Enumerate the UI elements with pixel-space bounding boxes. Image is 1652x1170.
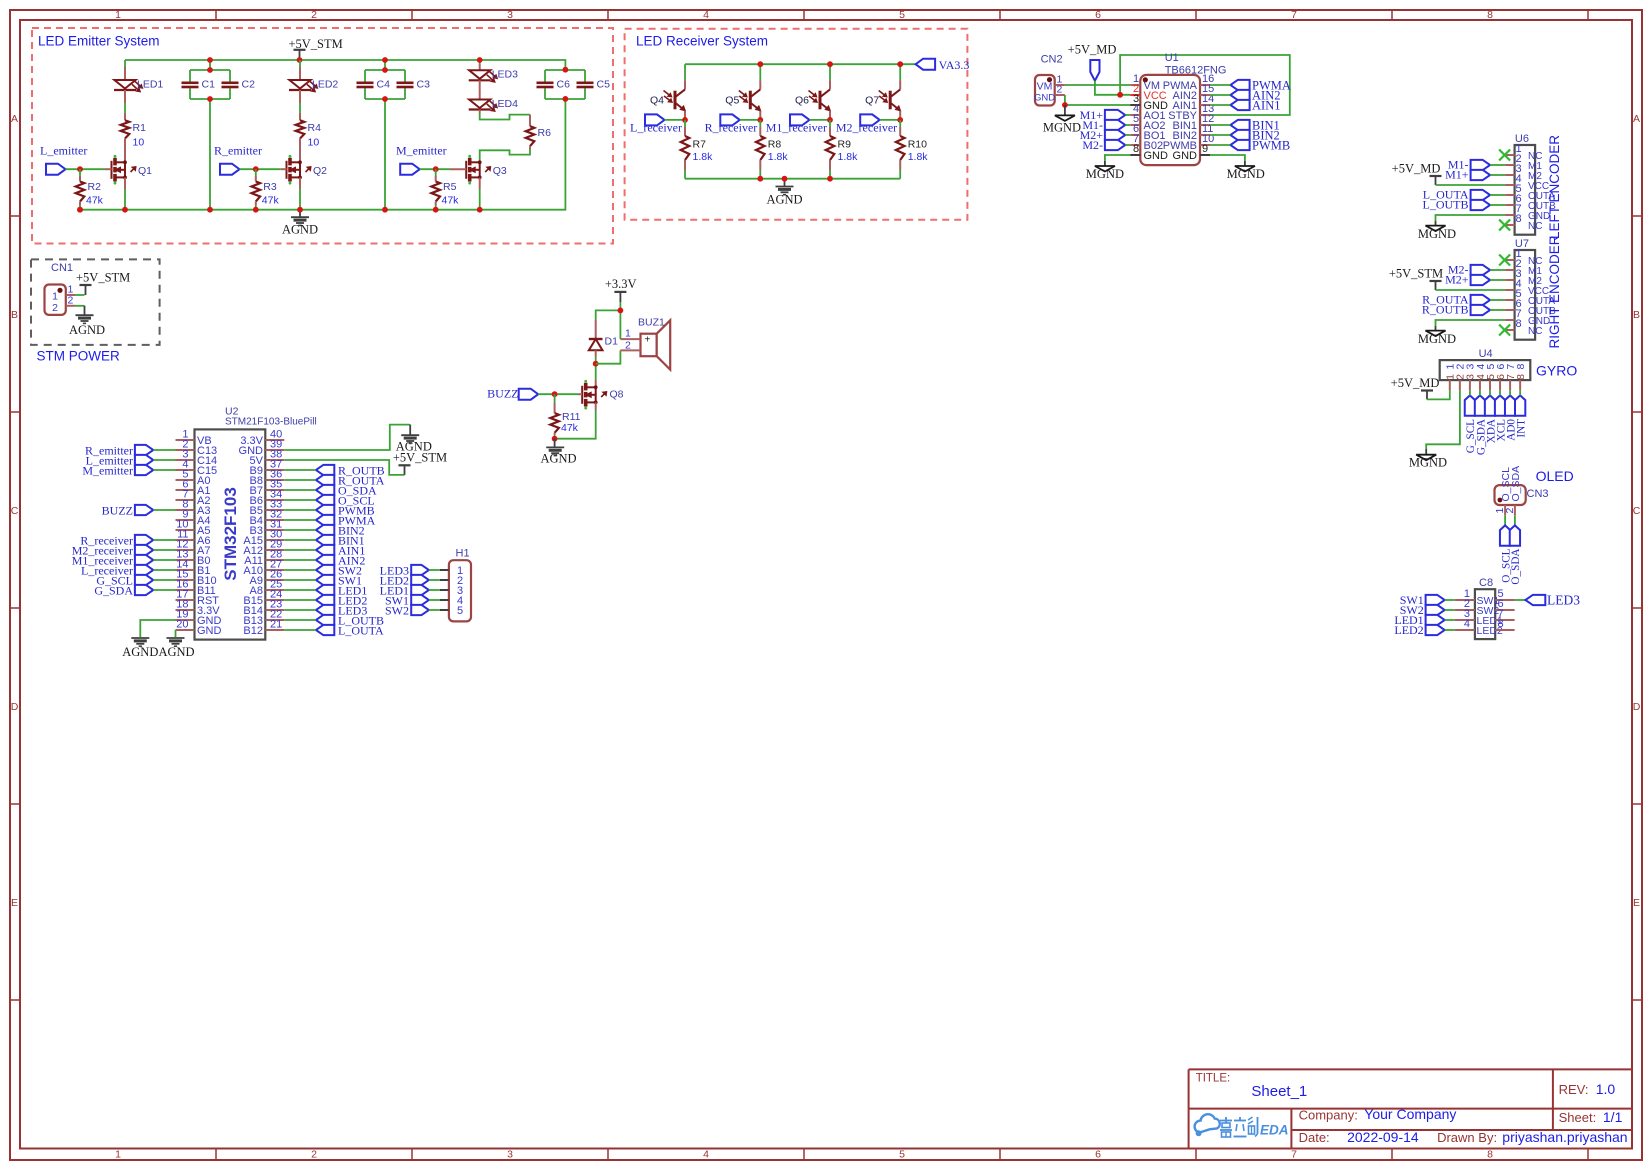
svg-text:47k: 47k <box>262 195 280 207</box>
junction dot Q1 source <box>122 207 128 213</box>
LED LED4 <box>469 98 518 112</box>
pin 8 U4 <box>1515 364 1527 391</box>
wire Q1 gate net <box>66 168 112 170</box>
port flag LED1 (U2 right) <box>316 584 367 598</box>
port flag R_receiver (U2) <box>80 533 153 547</box>
pin 30 U2 A15 <box>243 528 284 547</box>
svg-text:A: A <box>1633 113 1640 125</box>
svg-text:C1: C1 <box>202 78 216 90</box>
pin 8 U2 A3 <box>176 498 211 517</box>
wire LED anode lead LED1 <box>124 60 126 67</box>
svg-text:B: B <box>11 309 18 321</box>
svg-text:L_OUTA: L_OUTA <box>338 624 384 638</box>
wire AD0 (U4) <box>1509 390 1511 395</box>
port flag R_OUTB (U7) <box>1422 303 1490 317</box>
wire BUZZ gate net <box>538 393 582 395</box>
wire XCL (U4) <box>1499 390 1501 395</box>
transistor Q3 (N-MOSFET) <box>466 155 507 185</box>
wire BIN1 from U2 <box>284 539 316 541</box>
svg-text:CN3: CN3 <box>1527 488 1549 500</box>
svg-text:MGND: MGND <box>1086 167 1124 181</box>
svg-text:9: 9 <box>1202 143 1208 155</box>
svg-text:AGND: AGND <box>158 645 194 659</box>
svg-text:D1: D1 <box>605 335 619 347</box>
svg-text:M_emitter: M_emitter <box>82 463 133 477</box>
port flag BIN2 <box>1230 129 1279 143</box>
svg-text:8: 8 <box>1133 143 1139 155</box>
wire CN2-1 to U1 VM <box>1065 84 1130 86</box>
svg-text:20: 20 <box>176 618 188 630</box>
svg-text:B12: B12 <box>243 625 263 637</box>
title block Date <box>1299 1129 1419 1145</box>
capacitor C6 <box>537 78 571 90</box>
svg-text:8: 8 <box>1516 318 1522 330</box>
junction dot gate/R2 <box>77 166 83 172</box>
svg-text:NC: NC <box>1528 326 1542 337</box>
wire LED4 to R6 <box>480 110 530 127</box>
svg-text:Sheet:: Sheet: <box>1559 1110 1597 1125</box>
svg-text:GND: GND <box>197 625 222 637</box>
IC U1 TB6612FNG body <box>1140 52 1226 165</box>
svg-text:GND: GND <box>1034 93 1055 104</box>
pin 10 U1 PWMB <box>1163 133 1214 152</box>
svg-text:E: E <box>1633 897 1640 909</box>
wire G_SDA (U4) <box>1479 390 1481 395</box>
pin 1 CN1 <box>66 284 75 296</box>
pin 7 U6 GND <box>1505 203 1550 222</box>
wire PWMB <box>1210 144 1230 146</box>
port flag O_SDA (CN3) <box>1510 525 1522 584</box>
title block REV <box>1559 1081 1616 1097</box>
port flag XCL (U4) <box>1495 395 1507 441</box>
svg-text:NC: NC <box>1528 221 1542 232</box>
pin 2 U6 M1 <box>1505 153 1542 172</box>
svg-text:3: 3 <box>507 9 513 21</box>
wire G_SCL (U4) <box>1469 390 1471 395</box>
pin 6 U4 <box>1495 364 1507 391</box>
wire LED1 from U2 <box>284 589 316 591</box>
port flag BIN1 (U2 right) <box>316 534 365 548</box>
svg-text:21: 21 <box>270 618 282 630</box>
junction dot VCC/STBY <box>1117 92 1123 98</box>
ground AGND (CN1) <box>69 306 105 337</box>
svg-text:MGND: MGND <box>1418 332 1456 346</box>
junction dot gate/R3 <box>253 166 259 172</box>
svg-text:1: 1 <box>115 1149 121 1161</box>
resistor R10 <box>896 120 928 179</box>
port flag R_OUTA (U7) <box>1422 293 1490 307</box>
wire L_OUTB <box>1490 204 1505 206</box>
wire M2_receiver port <box>880 119 901 121</box>
wire U2 pin38 5V to +5V_STM <box>284 460 404 475</box>
svg-text:2: 2 <box>311 9 317 21</box>
pin 37 U2 B9 <box>250 458 285 477</box>
pin 2 CN2 <box>1055 84 1065 96</box>
wire M2+ <box>1490 279 1505 281</box>
wire LED3 to H1 <box>429 569 440 571</box>
svg-text:MGND: MGND <box>1409 456 1447 470</box>
port flag INT (U4) <box>1515 395 1527 437</box>
diode D1 <box>589 320 618 357</box>
junction dot Q6 collector <box>827 61 833 67</box>
pin 3 C8 LED1 <box>1455 608 1503 627</box>
svg-text:EDA: EDA <box>1260 1123 1289 1138</box>
svg-text:5: 5 <box>899 9 905 21</box>
port flag L_receiver (U2) <box>81 563 153 577</box>
pin 3 U2 C14 <box>176 448 218 467</box>
svg-text:2: 2 <box>1504 508 1516 514</box>
svg-text:VM: VM <box>1037 81 1053 93</box>
+5V_STM power flag (U2) <box>393 451 447 475</box>
svg-text:4: 4 <box>703 9 709 21</box>
wire BIN1 <box>1210 124 1230 126</box>
port flag M1+ (U6) <box>1445 168 1490 182</box>
port flag O_SCL (U2 right) <box>316 494 375 508</box>
pin 16 U2 B11 <box>176 578 216 597</box>
wire U1 pin9 GND <box>1210 155 1245 161</box>
port flag SW2 (U2 right) <box>316 564 362 578</box>
logo JLC EDA <box>1195 1114 1289 1137</box>
wire LED LED1 cathode to R1 <box>124 90 126 120</box>
pin 2 H1 <box>440 575 463 587</box>
wire Q2 gate net <box>240 168 287 170</box>
port flag LED3 (U2 right) <box>316 604 367 618</box>
wire R_emitter to U2 <box>153 449 175 451</box>
junction dot R9 bottom <box>827 176 833 182</box>
svg-text:R9: R9 <box>838 139 852 151</box>
svg-text:+5V_STM: +5V_STM <box>1389 267 1443 281</box>
resistor R5 <box>431 169 459 210</box>
wire VCC U6 <box>1436 184 1506 186</box>
pin 12 U2 A7 <box>176 538 211 557</box>
svg-text:R8: R8 <box>768 139 782 151</box>
pin 29 U2 A12 <box>243 538 284 557</box>
pin 2 U1 VCC <box>1130 83 1167 102</box>
IC U4 body (GYRO header) <box>1440 348 1531 380</box>
wire CN3 pin2 <box>1514 515 1516 525</box>
svg-text:1: 1 <box>52 291 58 303</box>
+5V_MD power flag (U4) <box>1391 376 1440 400</box>
junction dot Q7 emitter <box>897 117 903 123</box>
svg-text:1.8k: 1.8k <box>768 151 789 163</box>
title block Sheet <box>1559 1109 1623 1125</box>
junction dot Q3 source <box>477 207 483 213</box>
pin 1 H1 <box>440 565 463 577</box>
pin 1 BUZ1 <box>620 328 640 340</box>
svg-text:Q1: Q1 <box>138 165 152 177</box>
svg-text:CN1: CN1 <box>51 262 73 274</box>
svg-text:6: 6 <box>1095 9 1101 21</box>
svg-text:R4: R4 <box>308 122 322 134</box>
pin 6 U7 OUTB <box>1505 298 1556 317</box>
wire M1+ <box>1125 114 1130 116</box>
junction dot receiver AGND <box>782 176 788 182</box>
svg-text:+5V_STM: +5V_STM <box>393 451 447 465</box>
junction dot BUZZ/R11 <box>552 391 558 397</box>
no-connect X U6 pin1 <box>1499 150 1510 161</box>
wire D1 anode to Q8 drain <box>595 357 597 381</box>
pin 3 H1 <box>440 585 463 597</box>
svg-text:LED2: LED2 <box>1394 623 1423 637</box>
pin 1 U6 NC <box>1505 143 1542 162</box>
ground AGND (emitter) <box>282 210 318 237</box>
svg-text:47k: 47k <box>442 195 460 207</box>
pin 1 U4 <box>1445 364 1457 391</box>
ground MGND (U6) <box>1418 221 1456 241</box>
svg-text:LED3: LED3 <box>1547 593 1580 608</box>
ground AGND (U2 pin20) <box>158 638 194 659</box>
svg-text:R6: R6 <box>538 127 552 139</box>
svg-text:5: 5 <box>899 1149 905 1161</box>
port flag M2- (U7) <box>1448 263 1490 277</box>
port flag BUZZ (U2) <box>102 503 154 517</box>
capacitor C1 <box>182 78 216 90</box>
capacitor bracket C6/C5 wires <box>545 69 585 71</box>
wire M_emitter to U2 <box>153 469 175 471</box>
wire Q6 collector <box>829 64 831 89</box>
ground AGND (U2 pin19) <box>122 638 158 659</box>
wire M2+ <box>1125 134 1130 136</box>
junction dot +3.3V <box>618 308 624 314</box>
svg-text:5: 5 <box>457 605 463 617</box>
svg-text:47k: 47k <box>561 422 579 434</box>
svg-text:E: E <box>11 897 18 909</box>
+3.3V power flag <box>605 277 637 302</box>
port flag LED2 (C8) <box>1394 623 1444 637</box>
svg-text:8: 8 <box>1487 1149 1493 1161</box>
svg-text:R_emitter: R_emitter <box>214 144 262 158</box>
port flag L_OUTB (U2 right) <box>316 614 384 628</box>
svg-text:LEFT ENCODER: LEFT ENCODER <box>1547 135 1562 239</box>
port flag L_emitter <box>40 144 87 175</box>
wire M1- <box>1125 124 1130 126</box>
pin 8 C8 <box>1495 618 1514 630</box>
pin 15 U1 AIN2 <box>1173 83 1215 102</box>
junction dot CN2 GND <box>1062 102 1068 108</box>
pin 5 H1 <box>440 605 463 617</box>
capacitor bracket C4/C3 wires <box>365 69 405 71</box>
junction dot Q5 emitter <box>757 117 763 123</box>
transistor Q2 (N-MOSFET) <box>287 155 328 185</box>
svg-text:1.8k: 1.8k <box>908 151 929 163</box>
port flag M_emitter (U2) <box>82 463 153 477</box>
pin 5 U2 A0 <box>176 468 211 487</box>
pin 35 U2 B7 <box>250 478 285 497</box>
port flag M1+ <box>1080 108 1126 122</box>
wire U4 pin1 to +5V_MD <box>1427 390 1450 399</box>
pin 6 U2 A1 <box>176 478 211 497</box>
pin 2 C8 SW2 <box>1455 598 1500 617</box>
no-connect X U6 pin8 <box>1499 220 1510 231</box>
ground AGND (U2 pin39) <box>396 425 432 454</box>
pin 8 U1 GND <box>1130 143 1168 162</box>
svg-text:U1: U1 <box>1165 52 1179 64</box>
resistor R9 <box>826 120 858 179</box>
svg-text:B: B <box>1633 309 1640 321</box>
svg-text:10: 10 <box>133 137 145 149</box>
svg-text:1: 1 <box>115 9 121 21</box>
IC U6 body <box>1515 133 1536 235</box>
svg-text:1.8k: 1.8k <box>693 151 714 163</box>
wire O_SCL from U2 <box>284 499 316 501</box>
svg-text:TB6612FNG: TB6612FNG <box>1165 65 1227 77</box>
wire BIN2 <box>1210 134 1230 136</box>
wire LED1 to H1 <box>429 589 440 591</box>
ground MGND (U1 pin8) <box>1086 161 1124 181</box>
port flag M2_receiver <box>836 114 897 134</box>
pin 4 U7 VCC <box>1505 278 1549 297</box>
pin 14 U2 B1 <box>176 558 211 577</box>
svg-text:M2_receiver: M2_receiver <box>836 121 897 135</box>
svg-text:Date:: Date: <box>1299 1130 1330 1145</box>
wire AIN2 <box>1210 94 1230 96</box>
wire receiver VA3.3 rail <box>685 63 916 65</box>
svg-text:4: 4 <box>1464 618 1470 630</box>
capacitor C2 <box>222 78 256 90</box>
junction dot LED3 branch <box>477 57 483 63</box>
junction dot Q2 source <box>297 207 303 213</box>
LED LED3 (emitter) <box>469 69 518 83</box>
port flag R_OUTB (U2 right) <box>316 464 385 478</box>
pin 26 U2 A9 <box>250 568 285 587</box>
svg-text:R3: R3 <box>263 181 277 193</box>
svg-text:Q2: Q2 <box>313 165 327 177</box>
port flag LED2 (U2 right) <box>316 594 367 608</box>
pin 16 U1 PWMA <box>1163 73 1214 92</box>
port flag M1_receiver <box>766 114 827 134</box>
wire Q8 source to AGND <box>555 402 596 438</box>
+5V_MD net flag (U1) <box>1068 43 1117 81</box>
svg-text:2: 2 <box>68 294 74 306</box>
port flag AD0 (U4) <box>1505 395 1517 440</box>
port flag M1- (U6) <box>1448 158 1490 172</box>
wire M1_receiver port <box>810 119 831 121</box>
svg-text:Q5: Q5 <box>725 95 739 107</box>
pin 18 U2 3.3V <box>176 598 221 617</box>
port flag R_OUTA (U2 right) <box>316 474 385 488</box>
wire M1+ <box>1490 174 1505 176</box>
pin 3 U1 GND <box>1130 93 1168 112</box>
pin 1 C8 SW1 <box>1455 588 1500 607</box>
capacitor C4 <box>357 78 391 90</box>
svg-text:Q7: Q7 <box>865 95 879 107</box>
svg-text:TITLE:: TITLE: <box>1196 1072 1231 1084</box>
port flag LED2 (H1) <box>380 573 429 587</box>
ground MGND (U4) <box>1409 449 1447 470</box>
title block Company <box>1299 1106 1457 1123</box>
pin 9 U2 A4 <box>176 508 211 527</box>
resistor R11 <box>550 394 580 439</box>
wire LED2 to H1 <box>429 579 440 581</box>
svg-text:8: 8 <box>1498 618 1504 630</box>
svg-text:+: + <box>645 334 651 345</box>
svg-text:1: 1 <box>625 328 631 340</box>
port flag VA3.3 <box>916 58 970 72</box>
svg-text:R7: R7 <box>693 139 707 151</box>
wire +5V_MD to STBY loop <box>1120 55 1290 115</box>
pin 20 U2 GND <box>176 618 222 637</box>
wire R6 to Q3 drain <box>480 146 530 162</box>
svg-text:C2: C2 <box>242 78 256 90</box>
pin 38 U2 5V <box>250 448 285 467</box>
port flag M2_receiver (U2) <box>72 543 154 557</box>
resistor R3 <box>252 169 280 210</box>
+5V_STM power flag (emitter rail) <box>288 37 342 60</box>
svg-text:M2+: M2+ <box>1445 273 1469 287</box>
svg-text:BUZ1: BUZ1 <box>638 317 665 329</box>
svg-text:R5: R5 <box>443 181 457 193</box>
wire C8 pin5 to LED3 <box>1515 599 1526 601</box>
capacitor C3 <box>397 78 431 90</box>
wire BUZZ to U2 <box>153 509 175 511</box>
svg-text:47k: 47k <box>86 195 104 207</box>
svg-text:7: 7 <box>1291 9 1297 21</box>
wire R_OUTA <box>1490 299 1505 301</box>
svg-text:M_emitter: M_emitter <box>396 144 447 158</box>
port flag SW1 (C8) <box>1400 593 1445 607</box>
svg-text:CN2: CN2 <box>1041 54 1063 66</box>
junction dot D1/BUZ1/Q8 <box>593 361 599 367</box>
port flag L_receiver <box>630 114 682 134</box>
pin 5 U4 <box>1485 364 1497 391</box>
junction dot R3 bottom <box>253 207 259 213</box>
wire SW1 to H1 <box>429 599 440 601</box>
svg-text:Sheet_1: Sheet_1 <box>1251 1083 1307 1100</box>
svg-text:STM32F103: STM32F103 <box>221 487 240 581</box>
svg-text:G_SDA: G_SDA <box>94 583 133 597</box>
ground MGND (U7) <box>1418 326 1456 346</box>
port flag M2- <box>1082 138 1125 152</box>
+5V_STM power flag (CN1) <box>76 271 130 296</box>
svg-text:3: 3 <box>507 1149 513 1161</box>
pin 10 U2 A5 <box>176 518 211 537</box>
wire BUZ1 pin2 to node <box>596 350 621 363</box>
port flag G_SDA (U2) <box>94 583 153 597</box>
LED LED2 <box>289 78 338 92</box>
svg-text:VA3.3: VA3.3 <box>939 58 970 72</box>
resistor R6 <box>526 126 551 146</box>
port flag R_receiver <box>705 114 758 134</box>
junction dot gate/R5 <box>433 166 439 172</box>
svg-text:O_SDA: O_SDA <box>1510 549 1522 585</box>
connector H1 <box>449 548 471 622</box>
wire L_receiver port <box>665 119 686 121</box>
wire L_receiver to U2 <box>153 569 175 571</box>
pin 3 U6 M2 <box>1505 163 1542 182</box>
pin 13 U2 B0 <box>176 548 211 567</box>
svg-text:R_OUTB: R_OUTB <box>1422 303 1469 317</box>
pin 13 U1 STBY <box>1168 103 1214 122</box>
junction dot Q4 emitter <box>682 117 688 123</box>
wire R_OUTB from U2 <box>284 469 316 471</box>
svg-text:D: D <box>11 701 19 713</box>
ground MGND (CN2) <box>1043 105 1081 135</box>
pin 1 CN2 <box>1055 74 1065 86</box>
junction dot R11/AGND <box>552 436 558 442</box>
wire M2- <box>1490 269 1505 271</box>
wire Q3 source to rail <box>479 178 481 210</box>
wire INT (U4) <box>1519 390 1521 395</box>
svg-text:2022-09-14: 2022-09-14 <box>1347 1129 1419 1145</box>
svg-text:AGND: AGND <box>122 645 158 659</box>
port flag M1_receiver (U2) <box>72 553 154 567</box>
wire U2 pin20 GND down <box>175 630 177 637</box>
wire GND U6 <box>1436 215 1506 221</box>
phototransistor Q6 <box>795 89 830 111</box>
wire R_OUTB <box>1490 309 1505 311</box>
svg-text:MGND: MGND <box>1418 227 1456 241</box>
connector C8 body <box>1475 577 1495 639</box>
